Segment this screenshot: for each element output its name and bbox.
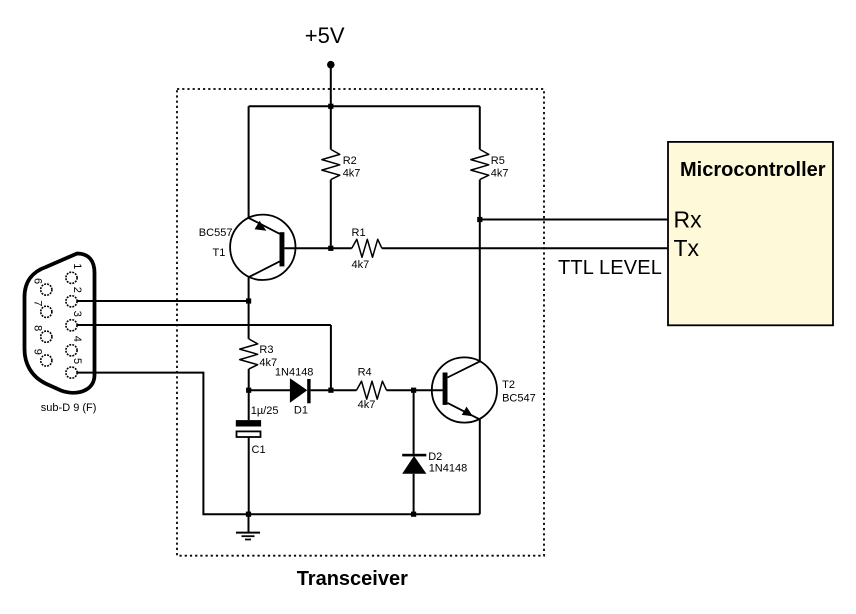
- resistor R3: [240, 339, 258, 390]
- wire T1 collector vertical: [248, 277, 250, 339]
- svg-text:+5V: +5V: [305, 23, 345, 48]
- svg-text:7: 7: [32, 300, 44, 306]
- svg-text:D2: D2: [428, 451, 442, 463]
- svg-text:R5: R5: [491, 155, 505, 167]
- svg-text:Rx: Rx: [674, 207, 703, 233]
- svg-text:3: 3: [71, 311, 83, 317]
- wire T2 base lead: [414, 389, 443, 391]
- junction R4 / D2 / T2 base: [411, 388, 416, 393]
- svg-text:4k7: 4k7: [343, 168, 361, 180]
- transceiver dashed boundary box: [177, 89, 544, 556]
- node +5V terminal dot: [327, 61, 335, 69]
- wire pin 3 vertical drop: [330, 325, 332, 390]
- svg-text:BC547: BC547: [502, 393, 536, 405]
- svg-text:T1: T1: [213, 247, 226, 259]
- transistor T2 BC547 (NPN): [432, 357, 497, 422]
- svg-text:4k7: 4k7: [491, 168, 509, 180]
- junction D2 / bottom rail: [411, 512, 416, 517]
- capacitor C1: [236, 390, 261, 514]
- svg-text:8: 8: [32, 325, 44, 331]
- junction R5 line / Rx wire: [477, 217, 482, 222]
- junction R2 / base wire: [328, 246, 333, 251]
- svg-text:D1: D1: [294, 405, 308, 417]
- resistor R4: [331, 381, 414, 399]
- connector pin 6: [41, 284, 52, 295]
- connector J1 sub-D 9 (F) outline: [25, 254, 95, 393]
- svg-text:Tx: Tx: [674, 235, 700, 261]
- diode D1 1N4148: [249, 378, 331, 403]
- svg-text:2: 2: [71, 287, 83, 293]
- connector pin 8: [41, 331, 52, 342]
- connector pin 2: [66, 296, 77, 307]
- wire Tx line from R1 to microcontroller: [382, 247, 668, 249]
- wire top supply rail: [249, 105, 480, 107]
- svg-text:TTL LEVEL: TTL LEVEL: [558, 257, 662, 279]
- transistor T1 BC557 (PNP): [230, 215, 295, 280]
- svg-text:1N4148: 1N4148: [429, 463, 468, 475]
- microcontroller block U1: [668, 142, 833, 325]
- svg-text:5: 5: [71, 358, 83, 364]
- junction D1 / pin3 drop / R4: [328, 388, 333, 393]
- ground symbol: [236, 514, 260, 539]
- junction C1 / bottom rail: [246, 512, 251, 517]
- resistor R1: [352, 239, 382, 257]
- svg-text:sub-D 9 (F): sub-D 9 (F): [41, 402, 97, 414]
- junction R3 / D1 / C1: [246, 388, 251, 393]
- connector pin 1: [66, 272, 77, 283]
- svg-text:1N4148: 1N4148: [275, 366, 314, 378]
- svg-text:4k7: 4k7: [352, 259, 370, 271]
- connector pin 4: [66, 345, 77, 356]
- wire T1 base to R1: [284, 247, 351, 249]
- svg-text:6: 6: [32, 278, 44, 284]
- svg-text:T2: T2: [502, 379, 515, 391]
- svg-text:R2: R2: [343, 155, 357, 167]
- wire pin 3 horizontal: [77, 324, 331, 326]
- svg-text:1µ/25: 1µ/25: [251, 405, 279, 417]
- resistor R2: [322, 106, 340, 248]
- svg-text:4k7: 4k7: [358, 399, 376, 411]
- wire left vertical to T1 emitter: [248, 106, 250, 218]
- wire pin 5 ground run: [77, 373, 480, 515]
- connector pin 7: [41, 306, 52, 317]
- svg-text:Microcontroller: Microcontroller: [680, 159, 826, 181]
- diode D2 1N4148: [402, 390, 426, 514]
- svg-text:R4: R4: [358, 366, 372, 378]
- junction top rail / R2: [328, 104, 333, 109]
- wire pin 2 to T1 collector line: [77, 300, 249, 302]
- svg-text:4: 4: [71, 336, 83, 342]
- resistor R5: [471, 106, 489, 361]
- svg-text:Transceiver: Transceiver: [297, 568, 408, 590]
- svg-text:9: 9: [32, 349, 44, 355]
- svg-text:R1: R1: [352, 227, 366, 239]
- svg-text:BC557: BC557: [199, 227, 233, 239]
- connector pin 3: [66, 320, 77, 331]
- wire +5V stub: [330, 65, 332, 107]
- svg-text:1: 1: [71, 263, 83, 269]
- wire T2 emitter vertical: [479, 419, 481, 514]
- junction pin2 wire / collector: [246, 298, 251, 303]
- svg-text:C1: C1: [252, 444, 266, 456]
- connector pin 9: [41, 355, 52, 366]
- connector pin 5: [66, 367, 77, 378]
- svg-text:R3: R3: [259, 344, 273, 356]
- wire Rx line from R5/T2 collector to microcontroller: [480, 219, 668, 221]
